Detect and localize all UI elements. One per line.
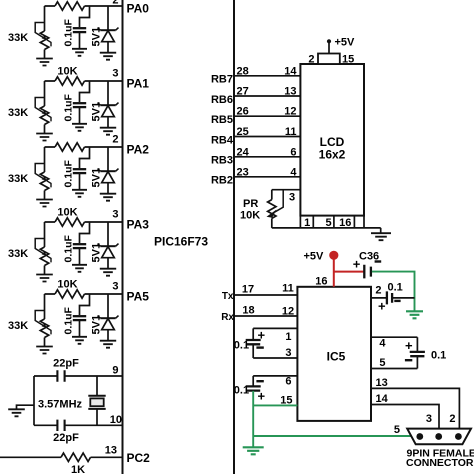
svg-text:PA2: PA2 — [127, 143, 150, 157]
wire RB4 to LCD — [234, 136, 300, 138]
wire PC2 net — [0, 456, 123, 458]
wire green C36 to ground — [372, 272, 415, 311]
connector J1 pin2 contact — [455, 433, 462, 440]
svg-text:2: 2 — [375, 285, 381, 297]
LCD power box pins 2 15 — [318, 54, 340, 65]
svg-text:RB5: RB5 — [211, 114, 233, 126]
zener diode D2 5V1 — [98, 81, 119, 127]
wire RB3 to LCD — [234, 156, 300, 158]
resistor R6 1K — [61, 453, 91, 461]
svg-text:+5V: +5V — [335, 37, 356, 49]
svg-text:17: 17 — [242, 283, 254, 295]
capacitor C8 0.1 pins1-3 — [246, 328, 261, 358]
wire green ground stem bottom — [252, 436, 254, 447]
capacitor C10 0.1 pins6-15 — [246, 376, 261, 391]
svg-text:33K: 33K — [8, 107, 28, 119]
preset PR 10K contrast pot — [267, 190, 284, 228]
svg-text:33K: 33K — [8, 320, 28, 332]
ground zener D1 — [100, 53, 116, 60]
svg-text:5V1: 5V1 — [91, 102, 103, 122]
svg-text:0.1: 0.1 — [234, 339, 249, 351]
wire +5V red to pin16 and C36 — [334, 257, 364, 287]
svg-text:13: 13 — [376, 377, 388, 389]
ground pot VR2 — [36, 134, 53, 141]
svg-text:11: 11 — [285, 126, 297, 138]
svg-text:12: 12 — [284, 106, 296, 118]
connector J1 pin3 contact — [435, 433, 442, 440]
zener diode D4 5V1 — [98, 222, 119, 268]
ground LCD — [371, 233, 391, 240]
wire OSC2 pin10 net — [34, 424, 123, 426]
svg-text:33K: 33K — [8, 173, 28, 185]
svg-text:10: 10 — [110, 414, 122, 426]
svg-text:RB7: RB7 — [211, 74, 233, 86]
svg-text:24: 24 — [237, 146, 250, 158]
ground green right — [406, 311, 423, 318]
svg-text:25: 25 — [237, 126, 249, 138]
svg-text:15: 15 — [342, 54, 354, 66]
potentiometer VR5 33K — [35, 294, 51, 346]
potentiometer VR2 33K — [35, 81, 51, 133]
svg-text:23: 23 — [237, 166, 249, 178]
wire PA5 input net — [45, 293, 123, 295]
svg-text:27: 27 — [237, 86, 249, 98]
wire RB7 to LCD — [234, 75, 300, 77]
capacitor C2 0.1uF — [73, 81, 90, 123]
capacitor C3 0.1uF — [73, 147, 90, 189]
svg-text:+: + — [378, 298, 386, 313]
svg-text:16: 16 — [315, 275, 327, 287]
wire RB2 to LCD — [234, 176, 300, 178]
capacitor C36 plates — [364, 265, 371, 279]
svg-text:16x2: 16x2 — [319, 148, 346, 162]
svg-text:5V1: 5V1 — [91, 315, 103, 335]
svg-text:Tx: Tx — [222, 291, 234, 302]
svg-text:Rx: Rx — [221, 312, 234, 323]
svg-text:PA5: PA5 — [127, 290, 150, 304]
label C8 minus — [256, 346, 263, 348]
label LCD 16x2 — [319, 135, 346, 162]
ground green bottom — [243, 447, 264, 454]
label C36 minus — [375, 260, 382, 262]
wire LCD ground stem — [380, 228, 382, 233]
label C11 minus — [405, 359, 412, 361]
svg-text:3: 3 — [426, 413, 432, 425]
svg-text:14: 14 — [376, 393, 389, 405]
svg-text:PIC16F73: PIC16F73 — [154, 235, 208, 249]
svg-text:10K: 10K — [57, 207, 77, 219]
wire IC5 pin4 to cap — [371, 336, 417, 338]
svg-text:3: 3 — [112, 68, 118, 80]
svg-text:10K: 10K — [57, 66, 77, 78]
wire Tx to IC5 pin11 — [234, 294, 297, 296]
capacitor C7 22pF bottom — [57, 420, 64, 431]
capacitor C9 0.1 pin2 — [387, 291, 392, 304]
svg-text:PA3: PA3 — [127, 218, 150, 232]
svg-text:1K: 1K — [71, 464, 85, 474]
svg-text:3: 3 — [112, 209, 118, 221]
wire LCD pin3 contrast — [272, 189, 301, 191]
svg-text:4: 4 — [379, 338, 386, 350]
svg-text:33K: 33K — [8, 32, 28, 44]
svg-text:+: + — [258, 388, 266, 403]
potentiometer VR3 33K — [35, 147, 51, 199]
wire PA1 input net — [45, 80, 123, 82]
connector J1 pin5 contact — [416, 433, 423, 440]
wire Rx to IC5 pin12 — [234, 315, 297, 317]
svg-text:10K: 10K — [240, 209, 260, 221]
wire IC5 pin5 to cap — [371, 368, 417, 370]
svg-text:+: + — [353, 256, 361, 271]
capacitor C11 0.1 pins4-5 — [410, 337, 425, 368]
label C9 minus — [394, 300, 400, 302]
svg-text:16: 16 — [339, 217, 351, 229]
svg-text:5: 5 — [394, 424, 400, 436]
wire PA0 input net — [45, 5, 123, 7]
ground pot VR4 — [36, 275, 53, 282]
LCD module DS1 16x2 body — [300, 64, 364, 216]
node +5V IC5 red dot — [329, 251, 338, 260]
svg-text:18: 18 — [242, 304, 254, 316]
svg-text:PA1: PA1 — [127, 77, 150, 91]
svg-text:0.1uF: 0.1uF — [63, 234, 75, 262]
wire oscillator ground tap — [17, 405, 35, 409]
svg-text:0.1: 0.1 — [388, 281, 403, 293]
wire RB6 to LCD — [234, 95, 300, 97]
svg-text:0.1uF: 0.1uF — [63, 159, 75, 187]
svg-text:0.1: 0.1 — [431, 350, 446, 362]
svg-text:PR: PR — [243, 198, 258, 210]
ground zener D3 — [100, 194, 116, 201]
wire IC5 pin2 to cap — [371, 297, 415, 299]
svg-text:0.1uF: 0.1uF — [63, 18, 75, 46]
potentiometer VR4 33K — [35, 222, 51, 274]
zener diode D1 5V1 — [98, 6, 119, 52]
potentiometer VR1 33K — [35, 6, 51, 58]
svg-text:2: 2 — [112, 0, 118, 7]
capacitor C4 0.1uF — [73, 222, 90, 264]
svg-text:6: 6 — [285, 375, 291, 387]
svg-text:14: 14 — [284, 65, 297, 77]
capacitor C1 0.1uF — [73, 6, 90, 48]
svg-text:11: 11 — [282, 282, 294, 294]
ground cap C1 — [72, 49, 87, 56]
zener diode D5 5V1 — [98, 294, 119, 340]
svg-text:PC2: PC2 — [127, 451, 151, 465]
svg-text:13: 13 — [284, 86, 296, 98]
svg-text:2: 2 — [308, 54, 314, 66]
IC5 body — [297, 287, 371, 421]
resistor R3 10K series — [55, 143, 85, 151]
svg-text:3: 3 — [285, 347, 291, 359]
capacitor C5 0.1uF — [73, 294, 90, 336]
wire OSC1 pin9 net — [34, 375, 123, 377]
resistor R1 10K series — [55, 2, 85, 10]
svg-text:22pF: 22pF — [53, 358, 79, 370]
ground cap C2 — [72, 124, 87, 131]
PIC16F73 U1 left edge — [122, 0, 124, 474]
zener diode D3 5V1 — [98, 147, 119, 193]
ground pot VR1 — [36, 59, 53, 66]
svg-text:28: 28 — [237, 65, 249, 77]
ground cap C5 — [72, 337, 87, 344]
label C10 minus — [256, 380, 263, 382]
svg-text:4: 4 — [290, 166, 297, 178]
ground pot VR5 — [36, 347, 53, 354]
svg-text:2: 2 — [112, 134, 118, 146]
svg-text:+: + — [258, 327, 266, 342]
wire green IC5 pin15 ground net — [253, 391, 420, 436]
svg-text:0.1: 0.1 — [234, 385, 249, 397]
wire PA3 input net — [45, 221, 123, 223]
wire IC5 pin14 to connector — [371, 405, 439, 434]
ground cap C3 — [72, 190, 87, 197]
svg-text:5V1: 5V1 — [91, 168, 103, 188]
svg-text:5V1: 5V1 — [91, 27, 103, 47]
connector J1 9pin female body — [407, 429, 471, 445]
svg-text:6: 6 — [290, 146, 296, 158]
wire IC5 pin3 cap bottom — [253, 357, 297, 359]
svg-text:CONNECTOR: CONNECTOR — [406, 457, 474, 469]
wire LCD bottom rail — [272, 227, 381, 229]
ground zener D2 — [100, 128, 116, 135]
wire IC5 pin13 to connector — [371, 388, 459, 433]
svg-text:0.1uF: 0.1uF — [63, 93, 75, 121]
resistor R4 10K series — [55, 218, 85, 226]
svg-text:33K: 33K — [8, 248, 28, 260]
svg-text:22pF: 22pF — [53, 432, 79, 444]
svg-text:3.57MHz: 3.57MHz — [38, 398, 83, 410]
resistor R2 10K series — [55, 77, 85, 85]
crystal X1 3.57MHz — [88, 376, 105, 425]
ground cap C4 — [72, 265, 87, 272]
svg-text:IC5: IC5 — [327, 350, 346, 364]
wire IC5 pin6 cap top — [253, 375, 297, 377]
svg-text:+: + — [405, 338, 413, 353]
wire IC5 pin1 cap top — [253, 327, 297, 329]
svg-text:5: 5 — [325, 217, 331, 229]
svg-text:1: 1 — [304, 217, 310, 229]
ground zener D5 — [100, 341, 116, 348]
capacitor C6 22pF top — [57, 370, 64, 381]
svg-text:9: 9 — [112, 365, 118, 377]
svg-text:PA0: PA0 — [127, 2, 150, 16]
svg-text:+5V: +5V — [304, 250, 325, 262]
svg-text:5: 5 — [379, 357, 385, 369]
svg-text:10K: 10K — [57, 279, 77, 291]
svg-text:RB6: RB6 — [211, 94, 233, 106]
svg-text:RB3: RB3 — [211, 155, 233, 167]
PIC16F73 U1 right edge — [233, 0, 235, 474]
svg-text:RB2: RB2 — [211, 175, 233, 187]
svg-text:3: 3 — [289, 192, 295, 204]
svg-text:26: 26 — [237, 106, 249, 118]
svg-text:0.1uF: 0.1uF — [63, 306, 75, 334]
svg-text:3: 3 — [112, 281, 118, 293]
resistor R5 10K series — [55, 290, 85, 298]
svg-text:RB4: RB4 — [211, 134, 234, 146]
svg-text:12: 12 — [282, 305, 294, 317]
LCD bottom pins 1 5 16 dividers — [300, 216, 364, 228]
svg-text:2: 2 — [449, 413, 455, 425]
wire PA2 input net — [45, 146, 123, 148]
wire +5V stem LCD — [328, 42, 330, 54]
wire RB5 to LCD — [234, 115, 300, 117]
svg-text:1: 1 — [285, 331, 291, 343]
svg-text:5V1: 5V1 — [91, 243, 103, 263]
ground oscillator — [8, 409, 25, 416]
svg-text:13: 13 — [105, 445, 117, 457]
wire oscillator left bus — [33, 376, 35, 425]
ground zener D4 — [100, 269, 116, 276]
ground pot VR3 — [36, 200, 53, 207]
node +5V LCD dot — [327, 39, 331, 43]
